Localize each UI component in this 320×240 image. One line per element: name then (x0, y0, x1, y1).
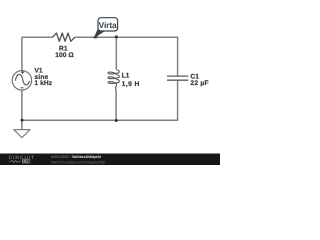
junction node bottom (L1 to bottom rail) (115, 119, 118, 122)
capacitor C1 bottom plate (167, 79, 188, 81)
ground (14, 130, 30, 138)
junction node top (wire to L1) (115, 35, 118, 38)
watermark logo zigzag (9, 160, 21, 162)
Virta flag pointer wedge (94, 29, 105, 39)
svg-text:Virta: Virta (99, 20, 117, 30)
wire V1 bottom to ground (21, 90, 23, 129)
svg-text:1 kHz: 1 kHz (34, 80, 52, 87)
svg-text:22 µF: 22 µF (190, 80, 209, 87)
V1 minus sign (21, 87, 24, 89)
svg-text:http://circuitlab.com/c/hapz6j: http://circuitlab.com/c/hapz6j790c (51, 160, 106, 164)
svg-text:100 Ω: 100 Ω (55, 52, 74, 59)
watermark bar (0, 154, 220, 166)
wire L1 branch top (115, 37, 117, 69)
junction node ground (21, 119, 24, 122)
V1 plus sign (21, 71, 24, 74)
wire L1 branch bottom (115, 93, 117, 121)
V1 sine glyph (15, 74, 29, 85)
capacitor C1 top plate (167, 75, 188, 77)
svg-text:LAB: LAB (23, 160, 31, 164)
svg-text:m0011890 / Vaihtosähköpiiri: m0011890 / Vaihtosähköpiiri (51, 155, 101, 159)
resistor R1 (53, 33, 75, 41)
svg-text:L1: L1 (122, 72, 130, 79)
wire top-left loop: V1 top to top-left corner to resistor left lead (22, 37, 53, 70)
watermark logo LAB (22, 159, 30, 163)
inductor L1 (108, 70, 119, 93)
wire C1 bottom plate to bottom-right corner to bottom rail left end (22, 80, 178, 120)
svg-text:CIRCUIT: CIRCUIT (9, 155, 35, 161)
wire top-right: resistor right lead to top-right corner down to C1 top plate (75, 37, 178, 76)
svg-text:1,9 H: 1,9 H (122, 81, 140, 88)
Virta flag box (98, 18, 118, 31)
voltage source V1 (12, 71, 31, 90)
